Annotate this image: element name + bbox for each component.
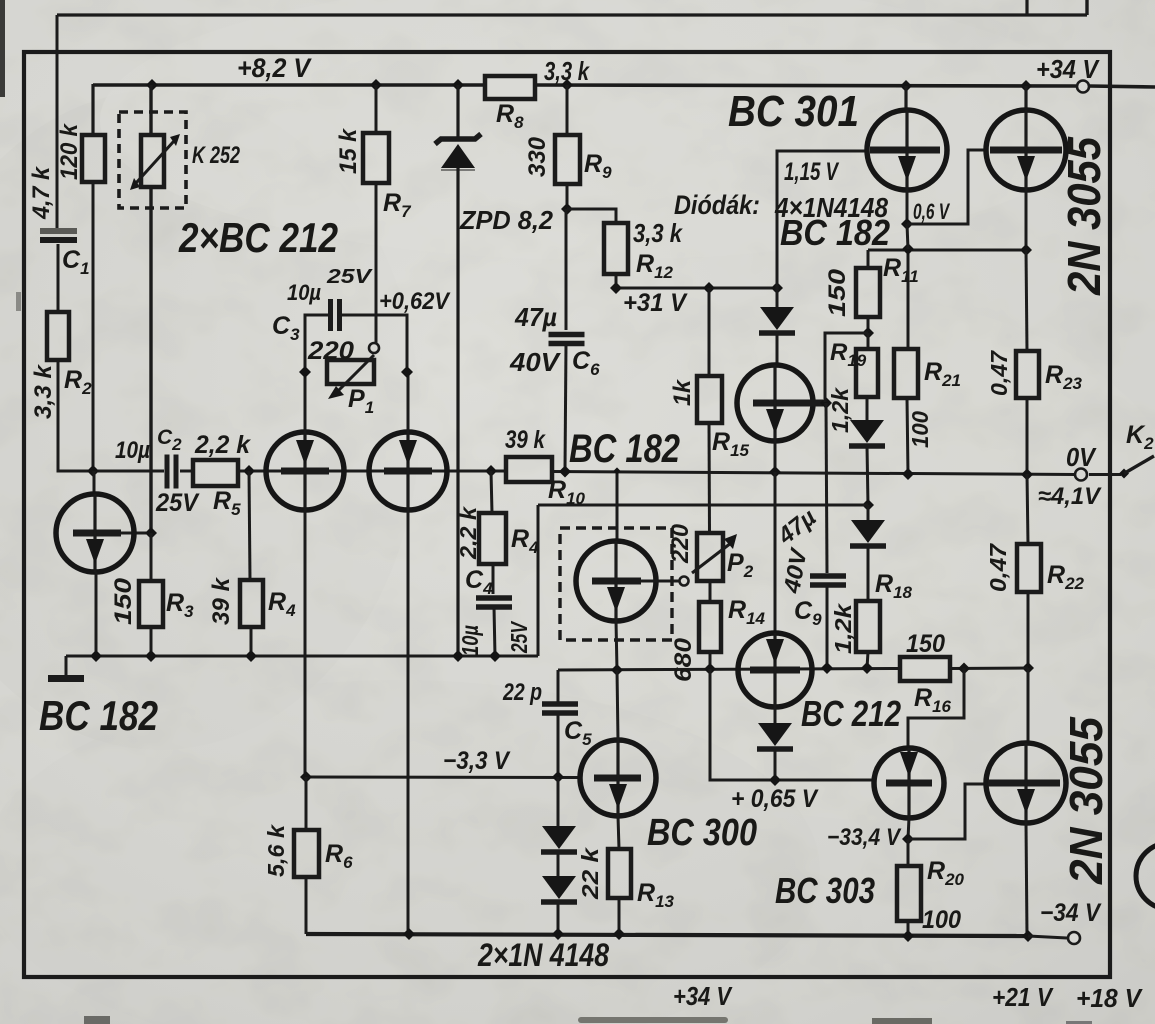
node dashed-Q collector on 0V <box>613 467 620 474</box>
wire C5 corner <box>557 670 560 702</box>
svg-text:10µ: 10µ <box>457 625 483 656</box>
resistor R20 100 <box>897 866 921 921</box>
resistor R4 39k (lower left) <box>240 580 263 627</box>
node R23 on 0V <box>1021 469 1033 481</box>
svg-text:120 k: 120 k <box>56 122 83 180</box>
scan artifact left edge <box>0 0 5 97</box>
node R18 on rail <box>861 662 873 674</box>
wire C6 column <box>565 209 568 330</box>
svg-text:BC 182: BC 182 <box>780 212 890 253</box>
node R21 on 0V <box>902 468 914 480</box>
wire R15 column <box>708 288 711 376</box>
node R9 top <box>561 79 573 91</box>
transistor Q5 BC301 <box>904 86 907 110</box>
svg-text:+34 V: +34 V <box>1036 54 1100 84</box>
wire C9 bottom <box>826 586 829 668</box>
svg-text:100: 100 <box>907 411 933 448</box>
resistor R22 0.47 <box>1017 544 1041 592</box>
LDR K252 arrows <box>136 141 174 183</box>
svg-text:0,47: 0,47 <box>986 350 1012 396</box>
wire D4 to +0.65V node <box>774 749 777 780</box>
node base/K252/R3 <box>145 527 157 539</box>
svg-text:1k: 1k <box>669 378 696 406</box>
capacitor C4 10u <box>476 595 512 601</box>
node P1 right <box>401 366 413 378</box>
node R9/R12/C6 <box>561 203 573 215</box>
node R7 top <box>370 79 382 91</box>
diode D3 1N4148 <box>867 505 870 520</box>
svg-text:0,47: 0,47 <box>985 543 1011 592</box>
svg-text:150: 150 <box>906 630 945 658</box>
svg-text:ZPD 8,2: ZPD 8,2 <box>459 205 553 235</box>
node diode chain mid (505 line) <box>862 499 874 511</box>
wire 505 bootstrap line <box>538 504 868 507</box>
potentiometer P1 220 <box>327 360 374 384</box>
node 120k/collector junction <box>87 465 99 477</box>
resistor R8 3.3k (in rail) <box>485 76 535 99</box>
svg-text:22 k: 22 k <box>577 847 603 901</box>
wire C3 right leg <box>340 315 407 373</box>
capacitor C5 22p <box>542 701 578 707</box>
node zener bottom <box>452 650 464 662</box>
wire emitter Q1 <box>95 572 98 656</box>
ground stub <box>65 656 68 676</box>
transistor Q9 BC300 lower <box>580 740 656 816</box>
svg-text:BC 300: BC 300 <box>647 812 757 854</box>
transistor Q11 2N3055 lower <box>1027 668 1030 743</box>
wire base input transistor <box>121 532 151 535</box>
svg-text:2N 3055: 2N 3055 <box>1058 136 1110 296</box>
node C6/R10/0V <box>559 466 571 478</box>
svg-text:220: 220 <box>307 337 354 365</box>
wire R23 bottom <box>1026 398 1029 474</box>
node D4 bottom <box>769 774 781 786</box>
node R4 bottom <box>245 650 257 662</box>
wire Q11 emitter <box>1026 823 1027 936</box>
terminal -34V <box>1068 932 1080 944</box>
resistor R12 3.3k <box>604 223 628 274</box>
node Q4 emitter on 0V <box>769 466 781 478</box>
wire main signal-0V line <box>180 470 193 473</box>
scan artifact bottom edge marks <box>84 1016 110 1024</box>
node Q7 emitter on rail <box>611 664 623 676</box>
wire D2 to node <box>867 446 868 505</box>
svg-text:150: 150 <box>110 577 137 625</box>
resistor R19 1.2k <box>867 333 870 349</box>
wire D3 to R18 <box>867 546 870 601</box>
svg-text:25V: 25V <box>155 489 200 517</box>
node R13 on rail <box>613 928 625 940</box>
transistor Q10 BC303 <box>874 748 944 818</box>
node K252 top <box>146 79 158 91</box>
wire to R23 <box>1026 250 1027 351</box>
node D1 top <box>771 282 783 294</box>
capacitor C2 10u <box>165 455 170 489</box>
LDR K252 body <box>141 135 164 187</box>
svg-text:BC 301: BC 301 <box>728 87 859 136</box>
node BC301 collector <box>900 80 912 92</box>
node base Q2 <box>243 465 255 477</box>
svg-text:+18 V: +18 V <box>1076 983 1144 1013</box>
wire K252 column upper <box>149 85 152 137</box>
wire R11 bottom <box>867 317 870 334</box>
wire Q6 emitter <box>1025 190 1028 250</box>
wire Q5 emitter <box>906 190 909 225</box>
svg-text:10µ: 10µ <box>287 280 321 305</box>
svg-text:−3,3 V: −3,3 V <box>443 747 511 775</box>
wire diode chain bottom <box>557 902 560 933</box>
svg-text:22 p: 22 p <box>502 679 542 706</box>
resistor R11 150 <box>856 268 880 317</box>
wire R18 bottom <box>867 652 868 668</box>
resistor R15 1k <box>697 376 722 423</box>
node Q3 collector bottom <box>403 928 415 940</box>
node C9 on rail <box>821 662 833 674</box>
transistor Q7 BC300 sense (dashed) <box>576 541 656 621</box>
svg-text:K 252: K 252 <box>192 142 240 169</box>
wire to R12 <box>567 209 616 223</box>
wire R7 column <box>375 85 378 133</box>
diode D1 1N4148 <box>776 288 779 307</box>
switch K2 lever <box>1124 456 1154 474</box>
wire Q9 emitter <box>618 816 619 849</box>
wire emitter Q2 up to P1 left <box>304 373 307 432</box>
wire R16 jog to BC303 emitter <box>908 669 964 750</box>
diode D5 1N4148 <box>557 777 560 826</box>
wire emitter Q3 up to P1 right <box>407 373 410 432</box>
wire R6 bottom corner <box>305 877 308 934</box>
svg-text:3,3 k: 3,3 k <box>544 56 590 86</box>
node R10 left <box>485 465 497 477</box>
node Q11 emitter on rail <box>1022 930 1034 942</box>
wire R4b feed <box>249 471 250 580</box>
dashed box thermal transistor <box>560 528 672 640</box>
svg-text:+21 V: +21 V <box>992 982 1054 1012</box>
wire 0.6V jog to 3055 base <box>907 150 987 224</box>
svg-text:−34 V: −34 V <box>1040 899 1102 927</box>
node R15 top <box>703 282 715 294</box>
wire R4 bottom <box>250 627 253 656</box>
node 0.6V <box>901 218 913 230</box>
capacitor C9 47u <box>810 573 846 579</box>
svg-text:150: 150 <box>824 268 851 317</box>
svg-text:2,2 k: 2,2 k <box>455 506 481 560</box>
wire R6 column <box>305 777 308 830</box>
node ZPD top <box>452 79 464 91</box>
wire C4 bottom <box>494 607 495 656</box>
node R20 on rail <box>902 930 914 942</box>
wire P2 to R14 <box>709 581 712 602</box>
resistor R13 22k <box>608 849 631 898</box>
svg-text:Diódák:: Diódák: <box>674 190 760 220</box>
wire collector Q2 down <box>304 510 307 777</box>
svg-text:15 k: 15 k <box>335 127 362 174</box>
wire -3.3V line <box>306 776 580 780</box>
resistor R10 39k (in line) <box>506 457 552 482</box>
svg-text:2×1N 4148: 2×1N 4148 <box>477 937 609 973</box>
svg-text:680: 680 <box>670 637 697 682</box>
wire R15 to P2 <box>708 423 712 533</box>
transistor Q1 input BC182 <box>56 494 134 572</box>
node R3 bottom <box>145 650 157 662</box>
svg-text:5,6 k: 5,6 k <box>263 824 289 877</box>
resistor R18 1.2k <box>856 601 880 652</box>
wire K252 bottom to base node <box>149 187 152 531</box>
wire zener to ground line <box>456 168 459 656</box>
node C4 bottom <box>489 650 501 662</box>
svg-text:330: 330 <box>524 136 551 177</box>
wire R20 bottom <box>907 921 910 936</box>
node Q1 emitter on ground line <box>90 650 102 662</box>
terminal P1 wiper <box>369 343 379 353</box>
diode D4 1N4148 <box>758 723 792 746</box>
svg-text:1,2k: 1,2k <box>827 387 853 433</box>
svg-text:4,7 k: 4,7 k <box>28 165 55 220</box>
node K2 pivot <box>1119 469 1129 479</box>
svg-text:25V: 25V <box>506 621 532 654</box>
svg-text:+8,2 V: +8,2 V <box>237 53 312 83</box>
wire 0V to driver emitter <box>774 472 777 633</box>
transistor Q8 BC212 driver <box>738 633 812 707</box>
resistor R5 2.2k <box>193 460 238 486</box>
wire base column to C9 <box>826 403 827 573</box>
svg-text:47µ: 47µ <box>514 302 557 332</box>
transistor Q3 BC212 right <box>369 432 447 510</box>
wire Q7 emitter down <box>616 621 617 670</box>
node -3.3 left (collector Q2/R6) <box>300 771 312 783</box>
svg-text:3,3 k: 3,3 k <box>30 363 57 419</box>
svg-text:+0,62V: +0,62V <box>379 288 451 315</box>
svg-text:1,15 V: 1,15 V <box>784 158 840 186</box>
node -33.4V <box>902 833 914 845</box>
svg-text:BC 182: BC 182 <box>569 427 680 471</box>
wire bottom negative rail <box>306 934 1028 936</box>
wire collector input transistor <box>93 471 96 495</box>
svg-text:10µ: 10µ <box>115 437 150 464</box>
wire R12 bottom <box>615 274 618 288</box>
node Q4 base / R19 column <box>820 397 832 409</box>
node R14 on rail <box>704 663 716 675</box>
node diode chain on rail <box>552 928 564 940</box>
svg-text:1,2k: 1,2k <box>830 603 856 654</box>
resistor R7 15k <box>363 133 389 183</box>
wire emitter-ground line <box>66 655 538 658</box>
svg-text:2,2 k: 2,2 k <box>194 431 251 459</box>
node rail-120k corner <box>91 84 94 135</box>
wire 505 corner down <box>537 505 540 656</box>
transistor Q6 2N3055 upper <box>1024 86 1027 110</box>
wire 250 rail (R11 to 3055 emitter) <box>868 249 1026 252</box>
terminal +34V <box>1077 81 1089 93</box>
capacitor C6 47u <box>549 332 585 338</box>
wire to C4 <box>492 564 495 594</box>
wire output rail (669) <box>558 669 900 671</box>
node C5 bottom <box>552 771 564 783</box>
resistor R9 330 <box>555 135 580 184</box>
resistor R14 680 <box>699 602 721 652</box>
transistor Q2 BC212 left <box>266 432 344 510</box>
node Q6 emitter / 250 rail <box>1020 244 1032 256</box>
node R12 bottom <box>610 282 622 294</box>
diode D2 1N4148 <box>866 397 869 420</box>
ground bar <box>48 675 84 682</box>
wire R13 bottom <box>618 898 621 933</box>
wire jog to 2N3055 lower base <box>908 784 988 839</box>
dashed box K252 <box>119 112 186 208</box>
diode D6 1N4148 <box>557 852 560 876</box>
svg-text:+34 V: +34 V <box>673 981 733 1011</box>
wire R9 bottom node <box>566 184 569 210</box>
svg-text:+ 0,65 V: + 0,65 V <box>731 785 819 813</box>
svg-text:BC 212: BC 212 <box>801 693 901 734</box>
wire 120k bottom to node <box>92 182 95 471</box>
node P1 left <box>299 366 311 378</box>
svg-text:39 k: 39 k <box>208 576 235 625</box>
wire Q7 base to wiper <box>641 580 679 583</box>
wire node to R21 <box>907 224 908 249</box>
svg-text:39 k: 39 k <box>505 426 546 454</box>
wire Q10 collector <box>908 818 909 839</box>
svg-text:2N 3055: 2N 3055 <box>1060 716 1112 885</box>
node 2N3055 upper collector <box>1020 80 1032 92</box>
wire R21 column <box>907 249 910 349</box>
wire to R3 <box>150 533 153 581</box>
svg-text:≈4,1V: ≈4,1V <box>1038 483 1102 510</box>
wire Q8 collector <box>774 707 777 723</box>
svg-text:40V: 40V <box>509 347 562 377</box>
wire Q9 collector to rail <box>617 670 618 740</box>
wire R21 bottom <box>907 398 908 474</box>
svg-text:+31 V: +31 V <box>623 289 688 317</box>
wire R20 feed <box>907 839 910 866</box>
svg-text:2×BC 212: 2×BC 212 <box>178 214 338 261</box>
resistor R4 2.2k (mid) <box>479 513 506 564</box>
resistor R16 150 (in rail) <box>900 657 950 681</box>
wire R22 feed <box>1027 474 1028 544</box>
wire R3 bottom <box>150 627 153 656</box>
resistor R2 3.3k <box>47 312 69 360</box>
capacitor C3 10u <box>328 299 333 331</box>
svg-text:−33,4 V: −33,4 V <box>827 824 902 851</box>
svg-text:BC 182: BC 182 <box>39 692 158 739</box>
wire input line x58 top <box>56 15 59 228</box>
svg-text:100: 100 <box>922 906 961 934</box>
resistor R23 0.47 <box>1016 351 1039 398</box>
resistor R6 5.6k <box>294 830 319 877</box>
terminal P2 wiper <box>680 577 689 586</box>
zener diode ZPD 8.2 <box>456 85 459 139</box>
node R16 right <box>958 663 970 675</box>
partial circle adjacent schematic <box>1136 843 1155 909</box>
svg-text:BC 303: BC 303 <box>775 870 875 911</box>
wire C6 bottom <box>565 344 566 470</box>
node R11 bottom <box>862 327 874 339</box>
wire to -34V terminal <box>1028 936 1067 938</box>
svg-text:3,3 k: 3,3 k <box>633 218 683 248</box>
wire R9 column <box>566 85 569 135</box>
wire collector Q3 down <box>407 510 410 933</box>
wire R22 bottom <box>1027 592 1030 668</box>
resistor R21 100 <box>894 349 918 398</box>
transistor Q4 BC182 VAS-upper <box>737 365 813 441</box>
outer top line (edge of diagram above) <box>57 13 1087 16</box>
svg-text:0V: 0V <box>1066 442 1097 472</box>
resistor 120k <box>82 135 105 182</box>
capacitor C1 <box>40 228 77 234</box>
wire R2 bottom to signal line <box>58 360 164 471</box>
node output rail right end <box>1022 662 1034 674</box>
node R21 top <box>902 243 914 255</box>
wire BC301 base <box>777 151 869 288</box>
wire R4c 2.2k feed <box>491 471 492 513</box>
terminal 0V output <box>1075 469 1087 481</box>
wire C3 left leg <box>305 315 330 373</box>
wire R14 bottom <box>709 652 712 669</box>
wire jog to base column <box>825 333 868 402</box>
wire dashed-Q collector to 0V <box>616 471 619 541</box>
svg-text:25V: 25V <box>326 266 373 288</box>
wire +8.2V / +34V top rail <box>93 83 485 87</box>
wire +0.65V line <box>710 669 874 780</box>
wire +31V <box>616 287 777 290</box>
potentiometer P2 220 <box>697 533 723 581</box>
wire emitter Q4 to 0V <box>774 441 777 472</box>
resistor R3 150 <box>139 581 163 627</box>
wire R11 top leg <box>867 250 870 268</box>
svg-text:0,6 V: 0,6 V <box>913 199 951 224</box>
svg-text:220: 220 <box>667 523 694 564</box>
wire C5 bottom <box>557 713 560 777</box>
